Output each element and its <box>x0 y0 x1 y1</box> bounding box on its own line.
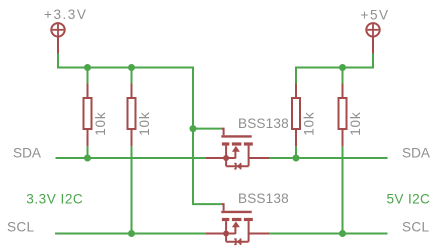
resistor R2 10k (3.3V SCL pull-up) <box>128 84 153 147</box>
svg-text:BSS138: BSS138 <box>238 116 289 131</box>
svg-text:5V I2C: 5V I2C <box>387 192 431 207</box>
wire 5V rail: supply down, bus left, down to R3 <box>296 54 373 84</box>
resistor R1 10k (3.3V SDA pull-up) <box>84 84 109 147</box>
junction dots (green) <box>84 64 346 237</box>
svg-text:+5V: +5V <box>361 7 390 22</box>
svg-text:3.3V I2C: 3.3V I2C <box>26 192 83 207</box>
svg-text:SDA: SDA <box>402 146 431 161</box>
junction R4 top <box>339 64 346 71</box>
wire R1 top stub <box>87 68 89 84</box>
wire SCL left segment <box>55 233 207 235</box>
wire SDA left segment <box>56 157 207 159</box>
junction gate branch <box>190 125 197 132</box>
wire SDA right segment <box>269 157 388 159</box>
wire R4 bottom run to SCL <box>342 146 344 233</box>
wire R2 top stub <box>131 68 133 84</box>
wire R2 bottom run to SCL <box>131 146 133 233</box>
wire R3 bottom stub <box>295 146 297 158</box>
svg-text:10k: 10k <box>302 111 317 135</box>
svg-text:BSS138: BSS138 <box>238 191 289 206</box>
junction R1 top <box>84 64 91 71</box>
junction SCL/R4 <box>339 230 346 237</box>
svg-text:SDA: SDA <box>13 146 42 161</box>
junction SCL/R2 <box>128 230 135 237</box>
supply symbol +3.3V <box>51 23 64 53</box>
svg-text:+3.3V: +3.3V <box>44 7 87 22</box>
wire SCL right segment <box>269 233 388 235</box>
junction SDA/R1 <box>84 155 91 162</box>
transistor Q2 BSS138 (SCL) <box>206 204 269 245</box>
svg-text:SCL: SCL <box>402 220 429 235</box>
wire R4 top stub <box>342 68 344 84</box>
svg-text:10k: 10k <box>348 111 363 135</box>
junction SDA/R3 <box>293 155 300 162</box>
junction R2 top <box>128 64 135 71</box>
transistor Q1 BSS138 (SDA) <box>206 129 269 170</box>
resistor R3 10k (5V SDA pull-up) <box>292 84 317 147</box>
wire R1 bottom stub <box>87 146 89 158</box>
wire gate branch to M1 <box>193 128 222 130</box>
svg-text:SCL: SCL <box>7 220 34 235</box>
resistor R4 10k (5V SCL pull-up) <box>339 84 364 147</box>
supply symbol +5V <box>366 23 379 53</box>
svg-text:10k: 10k <box>93 111 108 135</box>
wire 3.3V rail: supply down, bus right, gate rail down, to M2 gate <box>58 54 222 205</box>
svg-text:10k: 10k <box>137 111 152 135</box>
